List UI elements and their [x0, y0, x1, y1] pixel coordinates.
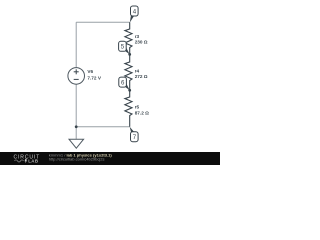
voltage source V6 [68, 68, 85, 85]
svg-text:7.72 V: 7.72 V [87, 76, 101, 81]
svg-text:230 Ω: 230 Ω [135, 40, 148, 45]
wire left vertical lower [75, 84, 77, 139]
wire top horizontal [76, 21, 130, 23]
svg-text:LAB: LAB [28, 159, 38, 164]
label R3 value [135, 34, 148, 44]
resistor R5 [125, 90, 132, 127]
svg-text:r3: r3 [135, 34, 140, 39]
node 4 flag [130, 6, 138, 23]
svg-text:6: 6 [121, 80, 125, 87]
svg-text:V6: V6 [87, 69, 93, 74]
label R5 value [135, 105, 149, 116]
ground [69, 139, 84, 148]
svg-text:http://circuitlab.com/c4b29bcj: http://circuitlab.com/c4b29bcj2s [49, 157, 105, 162]
svg-text:272 Ω: 272 Ω [135, 74, 148, 79]
resistor R4 [125, 54, 132, 90]
svg-text:4: 4 [133, 8, 137, 15]
junction node 5 [128, 53, 131, 56]
footer credit text [49, 153, 113, 162]
label V6 value [87, 69, 101, 80]
wire left vertical upper [75, 22, 77, 67]
resistor R3 [125, 22, 132, 54]
node 6 flag [119, 77, 130, 90]
label R4 value [135, 68, 148, 78]
footer bar [0, 152, 220, 165]
svg-text:r5: r5 [135, 105, 140, 110]
svg-text:r4: r4 [135, 68, 140, 73]
wire bottom horizontal [76, 126, 130, 128]
svg-text:87.2 Ω: 87.2 Ω [135, 110, 149, 115]
svg-text:7: 7 [133, 134, 137, 141]
junction node 6 [128, 89, 131, 92]
node 5 flag [119, 41, 130, 54]
CircuitLab logo [14, 155, 41, 164]
junction bottom-left [75, 125, 78, 128]
node 7 flag [130, 127, 138, 142]
